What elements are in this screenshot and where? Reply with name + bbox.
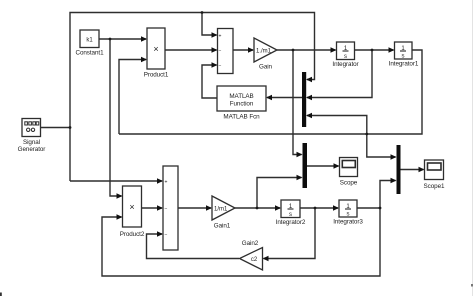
svg-text:s: s bbox=[289, 212, 292, 218]
svg-text:Integrator: Integrator bbox=[332, 61, 358, 68]
svg-text:Gain: Gain bbox=[259, 64, 273, 71]
arrow sum2 in2 bbox=[157, 205, 163, 210]
wire bbox=[119, 50, 422, 134]
wire bbox=[235, 207, 280, 209]
svg-text:Function: Function bbox=[230, 101, 254, 108]
svg-text:Integrator1: Integrator1 bbox=[389, 61, 419, 68]
node: integrator out tee bbox=[371, 49, 374, 52]
arrow product1 in1 bbox=[141, 36, 147, 41]
svg-text:s: s bbox=[402, 54, 405, 60]
arrow sum1 in1 bbox=[212, 32, 218, 37]
arrowheads bbox=[117, 32, 425, 261]
arrow gain2 in (left) bbox=[263, 256, 269, 261]
arrow scope1 in bbox=[419, 167, 425, 172]
arrow mux2 in1 bbox=[297, 152, 303, 157]
wire bbox=[99, 38, 146, 40]
arrow product2 in1 bbox=[117, 193, 123, 198]
svg-text:Signal: Signal bbox=[23, 139, 40, 146]
integrator I1 bbox=[332, 42, 358, 68]
wire bbox=[300, 207, 338, 209]
svg-text:Generator: Generator bbox=[18, 146, 46, 153]
node: gain out tee bbox=[292, 49, 295, 52]
wire bbox=[119, 60, 146, 135]
arrow integrator3 in bbox=[333, 205, 339, 210]
node: gain1 out tee bbox=[256, 207, 259, 210]
wire bbox=[267, 97, 302, 99]
wire bbox=[110, 39, 122, 196]
svg-text:s: s bbox=[347, 212, 350, 218]
svg-text:Constant1: Constant1 bbox=[76, 50, 105, 57]
arrow mux1 in2 (left) bbox=[306, 95, 312, 100]
arrow mux3 in1 bbox=[391, 154, 397, 159]
wire bbox=[142, 207, 163, 209]
product P1 bbox=[144, 28, 169, 79]
svg-text:+: + bbox=[219, 33, 222, 39]
arrow sum1 in2 bbox=[212, 47, 218, 52]
arrow scope in bbox=[334, 163, 340, 168]
product P2 bbox=[120, 186, 145, 238]
wire bbox=[233, 49, 253, 51]
wire bbox=[165, 49, 217, 51]
mux M2 bbox=[303, 143, 308, 188]
arrow sum1 in3 bbox=[212, 62, 218, 67]
sum S1 bbox=[218, 29, 234, 74]
svg-text:MATLAB Fcn: MATLAB Fcn bbox=[223, 114, 260, 121]
svg-text:×: × bbox=[129, 202, 134, 212]
wire bbox=[307, 165, 339, 167]
arrow sum2 in3 bbox=[157, 231, 163, 236]
wire bbox=[70, 180, 162, 182]
wire bbox=[257, 178, 302, 209]
svg-text:−: − bbox=[165, 232, 168, 238]
mux M3 bbox=[397, 145, 401, 194]
arrow product1 in2 bbox=[141, 57, 147, 62]
svg-text:−: − bbox=[165, 206, 168, 212]
wire bbox=[70, 13, 315, 182]
arrow gain in bbox=[248, 47, 254, 52]
integrator I3 bbox=[276, 200, 306, 226]
wire bbox=[307, 116, 367, 135]
node: siggen tee bbox=[69, 126, 72, 129]
wire bbox=[202, 65, 217, 98]
gain G2 (c2, flipped) bbox=[240, 240, 263, 270]
sum S2 bbox=[163, 166, 178, 250]
svg-text:Product1: Product1 bbox=[144, 72, 169, 79]
svg-text:Product2: Product2 bbox=[120, 231, 145, 238]
svg-text:Gain1: Gain1 bbox=[214, 223, 231, 230]
wire bbox=[202, 13, 217, 36]
wire bbox=[293, 50, 302, 155]
arrow product2 in2 bbox=[117, 214, 123, 219]
svg-text:Scope1: Scope1 bbox=[424, 183, 445, 190]
arrow integrator1 in bbox=[389, 47, 395, 52]
wire bbox=[380, 181, 396, 209]
svg-text:−: − bbox=[219, 48, 222, 54]
svg-text:s: s bbox=[344, 54, 347, 60]
svg-text:−: − bbox=[219, 63, 222, 69]
svg-text:c2: c2 bbox=[251, 257, 258, 263]
svg-text:1/m1: 1/m1 bbox=[214, 207, 228, 213]
signal generator bbox=[18, 119, 46, 154]
svg-text:Gain2: Gain2 bbox=[242, 240, 259, 247]
wire bbox=[401, 169, 424, 171]
node: integrator2 out tee bbox=[314, 207, 317, 210]
arrow mux1 in3 (left) bbox=[306, 113, 312, 118]
arrow mux3 in2 bbox=[391, 178, 397, 183]
wire bbox=[41, 127, 71, 129]
MATLAB Fcn block bbox=[217, 86, 266, 121]
wire bbox=[307, 50, 372, 98]
wire bbox=[355, 49, 394, 51]
svg-text:Integrator3: Integrator3 bbox=[333, 219, 363, 226]
node: k1 tee bbox=[109, 38, 112, 41]
arrow gain1 in bbox=[206, 205, 212, 210]
wire bbox=[264, 208, 316, 259]
svg-text:k1: k1 bbox=[86, 38, 93, 44]
svg-text:Integrator2: Integrator2 bbox=[276, 219, 306, 226]
wire bbox=[357, 207, 380, 209]
wire bbox=[102, 208, 380, 276]
arrow sum2 in1 bbox=[157, 178, 163, 183]
svg-text:+: + bbox=[165, 179, 168, 185]
integrator I2 bbox=[389, 42, 419, 68]
wire bbox=[277, 49, 336, 51]
arrow integrator2 in bbox=[275, 205, 281, 210]
svg-text:×: × bbox=[153, 44, 158, 54]
wire bbox=[367, 134, 396, 157]
arrow mux2 in2 bbox=[297, 175, 303, 180]
gain G1 (1/m1) bbox=[212, 196, 235, 230]
gain G (1./m1) bbox=[254, 38, 277, 71]
constant C1 (k1) bbox=[76, 30, 105, 57]
arrow mux1 in1 (left) bbox=[306, 77, 312, 82]
svg-text:1./m1: 1./m1 bbox=[256, 49, 272, 55]
arrow integrator in bbox=[331, 47, 337, 52]
svg-text:MATLAB: MATLAB bbox=[229, 93, 253, 100]
svg-text:Scope: Scope bbox=[340, 180, 358, 187]
scope1 bbox=[424, 160, 445, 190]
node: top wire tee bbox=[201, 11, 204, 14]
wire bbox=[178, 207, 211, 209]
node: x2 wire tee bbox=[365, 133, 368, 136]
mux M1 (flipped) bbox=[302, 72, 306, 127]
integrator I4 bbox=[333, 200, 363, 226]
node: integrator3 out tee bbox=[379, 207, 382, 210]
wire bbox=[147, 234, 240, 259]
arrow matlab fcn in (left) bbox=[266, 95, 272, 100]
scope bbox=[340, 158, 358, 187]
